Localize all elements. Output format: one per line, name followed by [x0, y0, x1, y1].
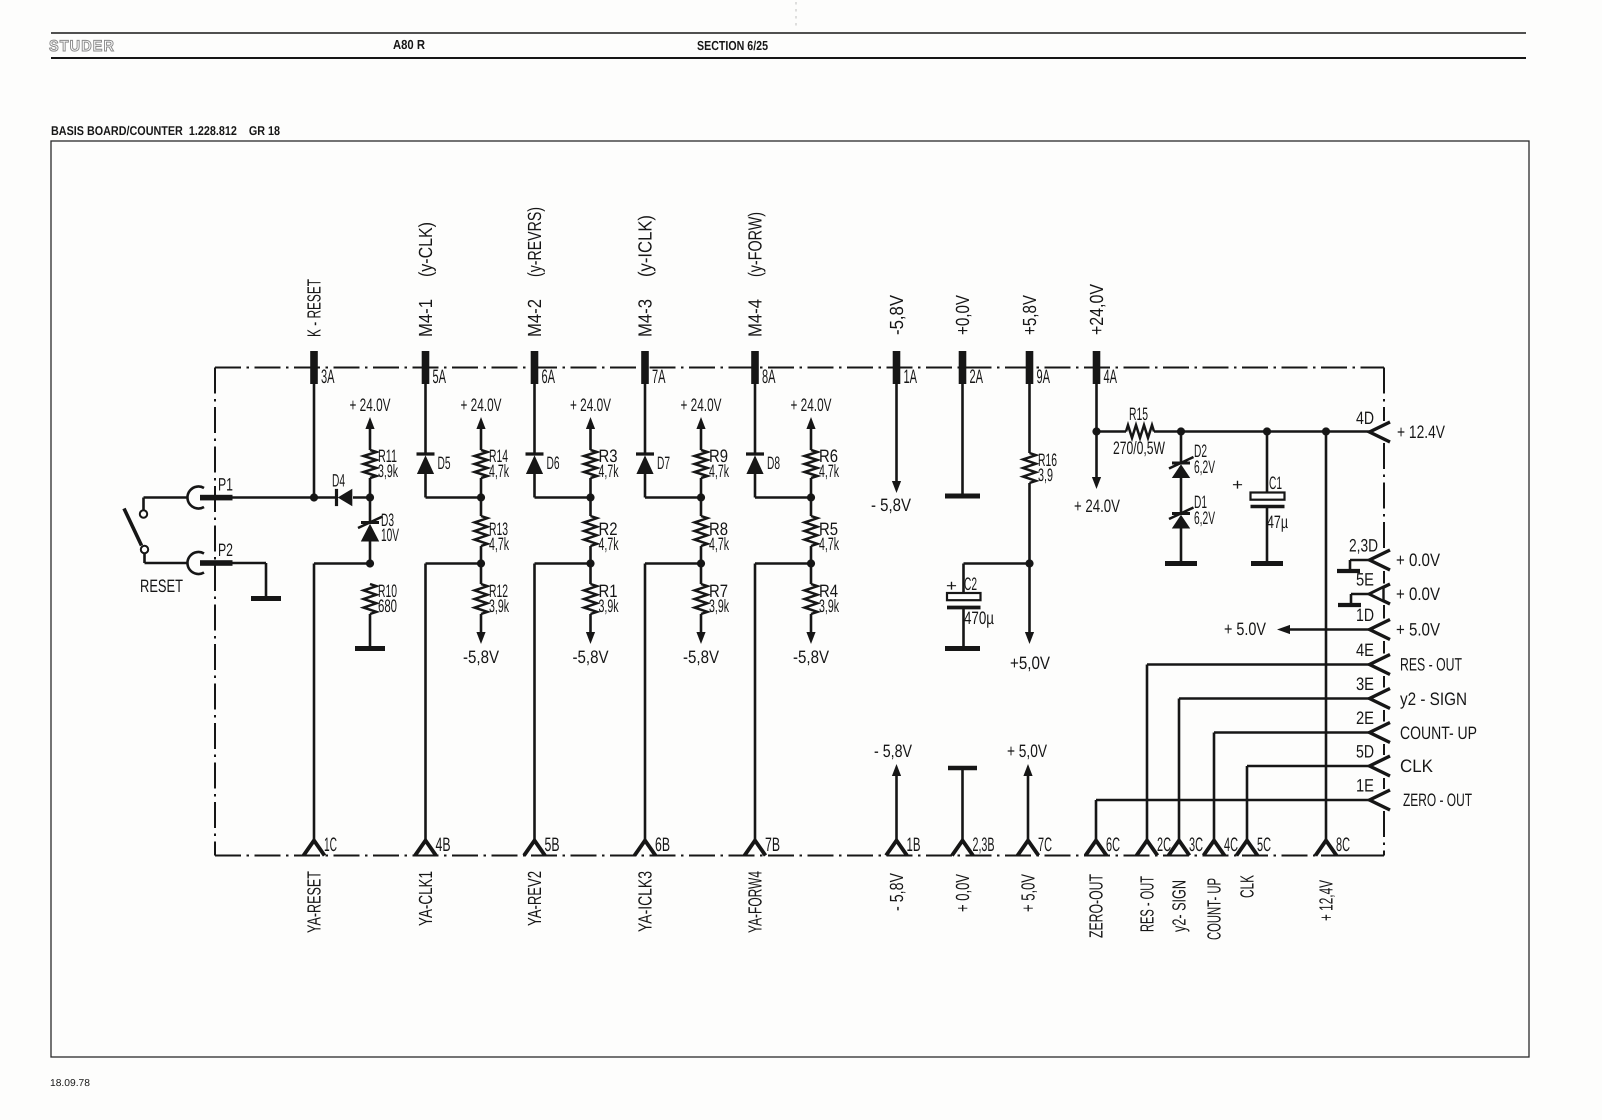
resistor R12	[475, 584, 488, 614]
svg-text:+ 24.0V: + 24.0V	[1074, 496, 1120, 516]
svg-text:YA-FORW4: YA-FORW4	[746, 871, 767, 933]
wire node to 7B riser	[755, 564, 811, 841]
switch contact lower	[141, 546, 148, 553]
label D3 10V	[381, 510, 399, 545]
resistor R16	[1023, 453, 1036, 483]
svg-text:3,9k: 3,9k	[819, 596, 840, 616]
node D2 tap	[1177, 427, 1185, 435]
resistor R8	[695, 516, 708, 546]
svg-text:- 5,8V: - 5,8V	[874, 741, 912, 761]
svg-text:+ 24.0V: + 24.0V	[791, 395, 832, 415]
svg-text:+ 0,0V: + 0,0V	[953, 874, 974, 912]
svg-text:6B: 6B	[655, 834, 670, 856]
svg-text:3,9k: 3,9k	[489, 596, 510, 616]
svg-text:A80 R: A80 R	[393, 37, 426, 52]
svg-text:D5: D5	[438, 453, 451, 473]
net arrow +24.0V (5A)	[461, 395, 502, 450]
svg-text:COUNT- UP: COUNT- UP	[1205, 878, 1226, 940]
svg-text:4,7k: 4,7k	[489, 461, 510, 481]
svg-text:M4-4: M4-4	[746, 299, 767, 337]
wire R6 to node	[810, 478, 813, 516]
svg-text:1B: 1B	[907, 834, 921, 856]
svg-text:270/0,5W: 270/0,5W	[1113, 438, 1165, 458]
wire node to 5B riser	[535, 564, 591, 841]
svg-text:4,7k: 4,7k	[599, 461, 620, 481]
label R5 4,7k	[819, 519, 840, 554]
node R14/R13	[477, 493, 485, 501]
connector 8C (+12,4V)	[1316, 841, 1337, 856]
connector 2A (+0,0V)	[959, 351, 967, 384]
svg-text:YA-REV2: YA-REV2	[525, 871, 546, 926]
connector 3E	[1370, 689, 1391, 709]
svg-text:+5,8V: +5,8V	[1020, 295, 1041, 335]
label D2 6,2V	[1194, 441, 1215, 477]
label R14 4,7k	[489, 446, 510, 481]
ground at C2	[945, 646, 980, 651]
connector 5D	[1370, 756, 1391, 776]
svg-text:D8: D8	[767, 453, 780, 473]
wire D5 to node	[426, 473, 482, 498]
net arrow +24.0V (col 1)	[350, 395, 391, 450]
svg-text:680: 680	[378, 596, 397, 616]
svg-text:7A: 7A	[652, 366, 666, 388]
board boundary right	[1383, 368, 1385, 856]
svg-text:9A: 9A	[1037, 366, 1051, 388]
connector 5B	[524, 841, 545, 856]
svg-text:+ 24.0V: + 24.0V	[681, 395, 722, 415]
net arrow +5.0V from 1D	[1224, 619, 1370, 639]
wire node to 1C riser	[314, 564, 370, 841]
board boundary top	[215, 367, 1384, 369]
label R6 4,7k	[819, 446, 840, 481]
net arrow -5,8V (6A)	[573, 614, 609, 667]
svg-text:STUDER: STUDER	[49, 38, 115, 55]
svg-text:YA-RESET: YA-RESET	[305, 871, 326, 933]
svg-text:1D: 1D	[1356, 605, 1374, 625]
label R3 4,7k	[599, 446, 620, 481]
net arrow -5,8V from 1A	[871, 384, 911, 515]
wire R2 to node	[589, 546, 592, 584]
node R8/R7/6B	[697, 559, 705, 567]
svg-text:+ 24.0V: + 24.0V	[570, 395, 611, 415]
net label M4-4 (y-FORW)	[746, 212, 767, 337]
connector 6A	[531, 351, 539, 384]
svg-text:4,7k: 4,7k	[709, 461, 730, 481]
board boundary bottom	[215, 855, 1384, 857]
connector 1D	[1370, 620, 1391, 640]
svg-text:COUNT- UP: COUNT- UP	[1400, 723, 1477, 743]
svg-text:M4-3: M4-3	[636, 299, 657, 337]
svg-text:10V: 10V	[381, 525, 399, 545]
svg-text:-5,8V: -5,8V	[463, 647, 499, 667]
resistor R4	[805, 584, 818, 614]
net arrow +5,0V down	[1010, 564, 1050, 674]
connector P2	[187, 552, 232, 574]
label R16 3,9	[1038, 450, 1057, 485]
wire D2 to D1	[1180, 477, 1183, 514]
label R8 4,7k	[709, 519, 730, 554]
wire 5D to 5C	[1247, 766, 1370, 840]
svg-text:1A: 1A	[904, 366, 918, 388]
board boundary left	[214, 368, 216, 856]
wire 2,3B to ground	[961, 770, 964, 840]
svg-text:4C: 4C	[1224, 834, 1238, 856]
wire R3 to node	[589, 478, 592, 516]
connector 5C (CLK)	[1237, 841, 1258, 856]
resistor R14	[475, 450, 488, 478]
svg-text:4D: 4D	[1356, 408, 1374, 428]
svg-text:3A: 3A	[321, 366, 335, 388]
connector 5A	[422, 351, 430, 384]
svg-text:+ 12.4V: + 12.4V	[1397, 422, 1445, 442]
label R2 4,7k	[599, 519, 620, 554]
svg-text:BASIS BOARD/COUNTER 1.228.812: BASIS BOARD/COUNTER 1.228.812 GR 18	[51, 123, 280, 138]
wire node to D3	[369, 498, 372, 523]
net arrow -5,8V up from 1B	[874, 741, 912, 840]
resistor R6	[805, 450, 818, 478]
net arrow -5,8V (7A)	[683, 614, 719, 667]
resistor R13	[475, 516, 488, 546]
svg-text:+ 5,0V: + 5,0V	[1019, 874, 1040, 912]
svg-text:y2- SIGN: y2- SIGN	[1170, 880, 1191, 932]
svg-text:+ 0.0V: + 0.0V	[1396, 550, 1440, 570]
svg-text:(y-FORW): (y-FORW)	[746, 212, 767, 277]
net label M4-1 (y-CLK)	[416, 222, 437, 337]
svg-text:3C: 3C	[1189, 834, 1203, 856]
diode D6	[526, 452, 544, 455]
node R2/R1/5B	[586, 559, 594, 567]
net arrow +24.0V down	[1074, 432, 1120, 517]
connector 5E	[1370, 584, 1391, 604]
svg-text:RES - OUT: RES - OUT	[1400, 655, 1462, 675]
svg-text:5D: 5D	[1356, 742, 1374, 762]
svg-text:+ 24.0V: + 24.0V	[350, 395, 391, 415]
svg-text:2,3B: 2,3B	[973, 834, 995, 856]
svg-text:C2: C2	[964, 574, 977, 594]
connector 7A	[641, 351, 649, 384]
svg-text:D4: D4	[332, 471, 345, 491]
zener diode D3	[361, 521, 379, 524]
connector 4C (COUNT-UP)	[1204, 841, 1225, 856]
wire 6A to D6	[533, 384, 536, 454]
connector 1A (-5,8V)	[893, 351, 901, 384]
svg-text:-5,8V: -5,8V	[887, 295, 908, 335]
svg-text:+0,0V: +0,0V	[953, 295, 974, 335]
wire 5A to D5	[424, 384, 427, 454]
svg-text:ZERO - OUT: ZERO - OUT	[1403, 790, 1472, 810]
wire 4E to 2C	[1147, 665, 1370, 841]
svg-text:+24,0V: +24,0V	[1087, 284, 1108, 335]
svg-text:8C: 8C	[1336, 834, 1350, 856]
wire 3E to 3C	[1179, 699, 1370, 841]
svg-text:+ 12,4V: + 12,4V	[1317, 880, 1338, 921]
ground at P2	[251, 596, 281, 601]
ground at 2A	[945, 494, 980, 499]
resistor R1	[584, 584, 597, 614]
node 4A/R15	[1092, 427, 1100, 435]
svg-text:3,9: 3,9	[1038, 465, 1053, 485]
svg-text:3,9k: 3,9k	[378, 461, 399, 481]
capacitor C2 470µ	[947, 593, 981, 646]
label R9 4,7k	[709, 446, 730, 481]
svg-text:5A: 5A	[433, 366, 447, 388]
svg-text:K - RESET: K - RESET	[305, 279, 326, 337]
svg-text:4,7k: 4,7k	[489, 534, 510, 554]
svg-text:2A: 2A	[970, 366, 984, 388]
capacitor C1 47µ	[1251, 493, 1285, 562]
wire 9A to R16	[1028, 384, 1031, 453]
ground stub at 5E	[1338, 594, 1370, 605]
connector 3C (y2-SIGN)	[1169, 841, 1190, 856]
svg-text:M4-2: M4-2	[525, 299, 546, 337]
wire D8 to node	[755, 473, 811, 498]
connector 2,3D	[1370, 550, 1391, 570]
svg-text:4,7k: 4,7k	[819, 461, 840, 481]
node R3/R2	[586, 493, 594, 501]
diode D4	[335, 489, 338, 506]
connector 4E	[1370, 655, 1391, 675]
wire D6 to node	[535, 473, 591, 498]
svg-text:RESET: RESET	[140, 576, 183, 596]
registration mark	[795, 2, 797, 27]
svg-text:(y-CLK): (y-CLK)	[416, 222, 437, 277]
net label M4-2 (y-REVRS)	[525, 207, 546, 337]
svg-text:7C: 7C	[1038, 834, 1052, 856]
svg-text:CLK: CLK	[1400, 756, 1433, 776]
wire switch to P2	[145, 553, 189, 563]
connector 2,3B (+0,0V)	[952, 841, 973, 856]
wire 4A to node	[1095, 384, 1098, 432]
resistor R3	[584, 450, 597, 478]
label R13 4,7k	[489, 519, 510, 554]
resistor R11	[364, 450, 377, 478]
connector P1	[187, 486, 232, 508]
svg-text:+ 5.0V: + 5.0V	[1396, 620, 1440, 640]
diode D8	[746, 452, 764, 455]
wire 4A node to R15	[1097, 430, 1127, 433]
header rule top	[51, 32, 1526, 34]
svg-text:3E: 3E	[1356, 674, 1374, 694]
svg-text:SECTION 6/25: SECTION 6/25	[697, 38, 768, 53]
connector 1E	[1370, 790, 1391, 810]
svg-text:R15: R15	[1129, 404, 1148, 424]
svg-text:8A: 8A	[762, 366, 776, 388]
svg-text:(y-REVRS): (y-REVRS)	[525, 207, 546, 277]
label R1 3,9k	[599, 581, 620, 616]
resistor R2	[584, 516, 597, 546]
connector 4A (+24,0V)	[1093, 351, 1101, 384]
connector 9A (+5,8V)	[1026, 351, 1034, 384]
connector 6C (ZERO-OUT)	[1086, 841, 1107, 856]
resistor R7	[695, 584, 708, 614]
wire R11 to node	[369, 478, 372, 498]
svg-text:+ 5.0V: + 5.0V	[1224, 619, 1266, 639]
zener diode D1	[1172, 512, 1190, 515]
wire node to C1	[1266, 432, 1269, 493]
wire R8 to node	[700, 546, 703, 584]
resistor R15	[1126, 425, 1154, 438]
node R13/R12/4B	[477, 559, 485, 567]
svg-text:4,7k: 4,7k	[599, 534, 620, 554]
label R10 680	[378, 581, 397, 616]
label D1 6,2V	[1194, 492, 1215, 528]
label R11 3,9k	[378, 446, 399, 481]
svg-text:+ 24.0V: + 24.0V	[461, 395, 502, 415]
node R11/D4/D3	[366, 493, 374, 501]
net label M4-3 (y-ICLK)	[636, 215, 657, 337]
diode D5	[417, 452, 435, 455]
svg-text:- 5,8V: - 5,8V	[871, 495, 911, 515]
wire node to 6B riser	[645, 564, 701, 841]
svg-text:(y-ICLK): (y-ICLK)	[636, 215, 657, 277]
connector 4B	[415, 841, 436, 856]
svg-text:-5,8V: -5,8V	[793, 647, 829, 667]
zener diode D2	[1172, 462, 1190, 465]
node P1/3A junction	[310, 493, 318, 501]
svg-text:4E: 4E	[1356, 640, 1374, 660]
wire P1 node to D4	[233, 496, 336, 499]
svg-text:+ 5,0V: + 5,0V	[1007, 741, 1047, 761]
connector 1C	[304, 841, 325, 856]
svg-text:4B: 4B	[436, 834, 451, 856]
svg-text:4,7k: 4,7k	[819, 534, 840, 554]
svg-text:CLK: CLK	[1238, 875, 1259, 898]
node D3/R10/1C	[366, 559, 374, 567]
node R16/C2/+5V	[1025, 559, 1033, 567]
svg-text:D7: D7	[657, 453, 670, 473]
wire 7A to D7	[644, 384, 647, 454]
wire 1E to 6C	[1096, 800, 1370, 840]
svg-text:4A: 4A	[1104, 366, 1118, 388]
svg-text:P1: P1	[218, 475, 233, 495]
wire D1 to ground	[1180, 528, 1183, 562]
svg-text:4,7k: 4,7k	[709, 534, 730, 554]
diode D7	[636, 452, 654, 455]
svg-text:RES - OUT: RES - OUT	[1138, 876, 1159, 932]
drawing frame	[51, 141, 1529, 1057]
svg-text:-5,8V: -5,8V	[683, 647, 719, 667]
wire R10 to ground	[369, 614, 372, 646]
svg-text:D6: D6	[547, 453, 560, 473]
net arrow +24.0V (8A)	[791, 395, 832, 450]
connector 1B (-5,8V)	[886, 841, 907, 856]
svg-text:6,2V: 6,2V	[1194, 508, 1215, 528]
label R15 270/0,5W	[1113, 404, 1165, 458]
svg-text:- 5,8V: - 5,8V	[887, 873, 908, 911]
net arrow -5,8V (8A)	[793, 614, 829, 667]
net arrow +5,0V up from 7C	[1007, 741, 1047, 840]
wire R15 to 4D	[1154, 430, 1370, 433]
ground at C1	[1251, 561, 1283, 566]
svg-text:5E: 5E	[1356, 570, 1374, 590]
ground stub at 2,3D	[1337, 560, 1370, 571]
wire 2E to 4C	[1214, 733, 1370, 841]
wire +12,4V riser to 8C	[1325, 432, 1328, 841]
connector 7B	[745, 841, 766, 856]
ground at R10	[355, 646, 385, 651]
wire R14 to node	[480, 478, 483, 516]
connector 2E	[1370, 723, 1391, 743]
svg-text:47µ: 47µ	[1267, 512, 1288, 532]
connector 7C (+5,0V)	[1018, 841, 1039, 856]
label R12 3,9k	[489, 581, 510, 616]
net arrow -5,8V (5A)	[463, 614, 499, 667]
connector 3A (K-RESET)	[310, 351, 318, 384]
wire P1 to switch	[144, 498, 189, 511]
svg-text:1C: 1C	[324, 834, 337, 856]
resistor R9	[695, 450, 708, 478]
svg-text:5C: 5C	[1257, 834, 1271, 856]
connector 2C (RES-OUT)	[1137, 841, 1158, 856]
ground at D1	[1165, 561, 1197, 566]
svg-text:YA-ICLK3: YA-ICLK3	[636, 871, 657, 932]
svg-text:3,9k: 3,9k	[709, 596, 730, 616]
svg-text:6C: 6C	[1106, 834, 1120, 856]
node R5/R4/7B	[807, 559, 815, 567]
node 8C riser tap	[1322, 427, 1330, 435]
svg-text:-5,8V: -5,8V	[573, 647, 609, 667]
wire node to 4B riser	[426, 564, 482, 841]
wire D7 to node	[645, 473, 701, 498]
switch RESET lever	[124, 509, 142, 546]
wire node to C2	[964, 564, 1030, 594]
svg-text:470µ: 470µ	[964, 608, 994, 628]
svg-text:6,2V: 6,2V	[1194, 457, 1215, 477]
svg-text:5B: 5B	[545, 834, 560, 856]
svg-text:C1: C1	[1269, 473, 1282, 493]
wire R5 to node	[810, 546, 813, 584]
wire P2 to ground	[233, 563, 267, 597]
svg-text:2,3D: 2,3D	[1349, 536, 1378, 556]
wire 2A to ground	[961, 384, 964, 494]
net arrow +24.0V (7A)	[681, 395, 722, 450]
resistor R5	[805, 516, 818, 546]
connector 6B	[635, 841, 656, 856]
svg-text:2E: 2E	[1356, 708, 1374, 728]
svg-text:3,9k: 3,9k	[599, 596, 620, 616]
svg-text:+: +	[946, 578, 957, 595]
ground above 2,3B	[948, 766, 977, 771]
svg-text:y2 - SIGN: y2 - SIGN	[1400, 689, 1467, 709]
wire 3A down to node	[313, 384, 316, 498]
label R7 3,9k	[709, 581, 730, 616]
svg-text:+5,0V: +5,0V	[1010, 653, 1050, 673]
label R4 3,9k	[819, 581, 840, 616]
node R6/R5	[807, 493, 815, 501]
wire D4 to R11 node	[353, 496, 370, 499]
wire node to D2	[1180, 432, 1183, 464]
svg-text:M4-1: M4-1	[416, 299, 437, 337]
net arrow +24.0V (6A)	[570, 395, 611, 450]
wire D3 to node	[369, 542, 372, 564]
connector 4D	[1370, 422, 1391, 442]
svg-text:6A: 6A	[542, 366, 556, 388]
svg-text:+ 0.0V: + 0.0V	[1396, 584, 1440, 604]
header rule bottom	[51, 57, 1526, 59]
svg-text:7B: 7B	[765, 834, 780, 856]
wire 8A to D8	[754, 384, 757, 454]
svg-text:18.09.78: 18.09.78	[50, 1078, 90, 1089]
svg-text:+: +	[1232, 477, 1243, 494]
svg-text:ZERO-OUT: ZERO-OUT	[1087, 874, 1108, 938]
switch contact upper	[140, 510, 147, 517]
svg-text:1E: 1E	[1356, 776, 1374, 796]
wire R16 to node	[1028, 483, 1031, 564]
node R9/R8	[697, 493, 705, 501]
node C1 tap	[1263, 427, 1271, 435]
svg-text:P2: P2	[218, 540, 233, 560]
connector 8A	[751, 351, 759, 384]
